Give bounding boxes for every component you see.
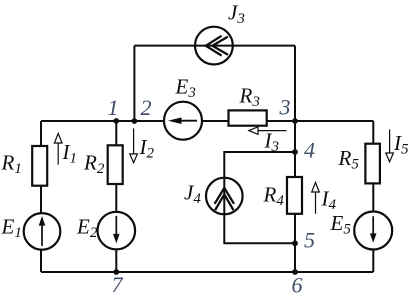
svg-text:3: 3 [279,95,291,120]
wire node 2 vertical up [133,46,135,121]
svg-text:I5: I5 [393,131,409,158]
svg-text:R4: R4 [263,183,285,210]
resistor R5 [365,144,380,184]
svg-text:E3: E3 [175,75,196,102]
wire bottom (node7-node6 row) [41,271,373,273]
node 4 [292,149,298,155]
svg-text:I2: I2 [139,135,155,162]
svg-text:R3: R3 [239,84,260,111]
wire middle horizontal (node 1,2,3 row) [41,120,373,122]
svg-text:7: 7 [112,272,124,297]
svg-text:R2: R2 [83,151,105,178]
svg-text:R1: R1 [1,151,22,178]
wire left vertical (R1/E1 column) [40,121,42,272]
svg-text:6: 6 [292,273,303,298]
current source J4 [206,178,243,215]
resistor R4 [287,177,302,214]
svg-text:E1: E1 [1,215,22,242]
current arrow I3 [249,127,287,135]
source E5 [354,212,392,250]
svg-text:5: 5 [304,228,315,253]
source E2 [98,212,136,250]
current arrow I1 [54,133,62,164]
svg-text:R5: R5 [338,146,360,173]
node 1 [113,118,119,124]
wire J4 branch loop [224,152,295,243]
source E1 [24,213,61,250]
wire far right vertical (R5/E5 column) [372,121,374,272]
svg-text:4: 4 [304,138,315,163]
current source J3 [195,27,233,65]
svg-text:J4: J4 [184,181,201,208]
svg-text:J3: J3 [228,1,245,28]
current arrow I4 [312,183,320,214]
resistor R2 [108,145,123,184]
node 6 [292,269,298,275]
wire top (node2 top corner to right top corner) [134,45,295,47]
node 5 [292,240,298,246]
wire right main vertical (through nodes 3,4,5,6) [294,46,296,272]
svg-text:1: 1 [108,95,119,120]
resistor R3 [229,110,267,125]
node 3 [292,118,298,124]
svg-text:I3: I3 [264,129,280,156]
svg-text:I4: I4 [321,187,337,214]
wire node1/node7 vertical (R2/E2 column) [115,121,117,272]
svg-text:I1: I1 [62,140,78,167]
node 7 [113,269,119,275]
node 2 [132,118,138,124]
resistor R1 [32,146,47,186]
svg-text:E2: E2 [76,215,98,242]
current arrow I5 [386,129,394,161]
svg-text:E5: E5 [330,211,352,238]
svg-text:2: 2 [141,95,152,120]
source E3 [164,102,202,140]
current arrow I2 [130,128,138,162]
